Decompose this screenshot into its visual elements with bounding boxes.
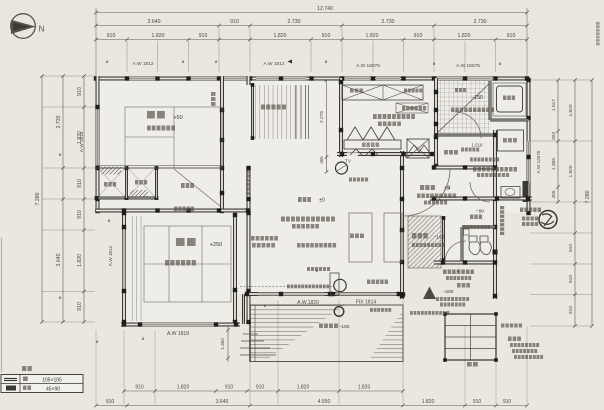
svg-text:ø: ø [108, 218, 111, 223]
dimension 1.350 vertical [227, 324, 229, 362]
svg-text:2.730: 2.730 [288, 19, 301, 25]
svg-text:ø: ø [325, 59, 328, 64]
post300 label [370, 308, 373, 312]
svg-text:1.820: 1.820 [366, 33, 379, 39]
toilet fixtures [469, 236, 480, 255]
top windows [127, 77, 158, 81]
kitchen counter [342, 85, 423, 100]
heater north wall [430, 197, 532, 201]
room1 tatami [125, 107, 222, 168]
svg-text:1.820: 1.820 [177, 385, 190, 391]
svg-text:−150: −150 [434, 235, 445, 241]
washer [498, 130, 524, 151]
room2 right wall [233, 213, 237, 324]
veranda strip border [295, 85, 297, 139]
washroom-porch wall [493, 130, 497, 299]
svg-text:A.W 1812: A.W 1812 [132, 61, 153, 67]
chimney dark bar [523, 181, 529, 202]
svg-text:ø: ø [106, 59, 109, 64]
svg-text:A.W 1812: A.W 1812 [108, 245, 113, 266]
svg-text:455: 455 [551, 190, 557, 198]
closet label 1 [104, 182, 107, 187]
room2 south wall [121, 323, 240, 327]
tilearea south wall [434, 134, 497, 137]
svg-text:105×105: 105×105 [42, 378, 62, 384]
door arc corridor [470, 182, 490, 202]
svg-text:910: 910 [135, 385, 144, 391]
fridge box [407, 139, 429, 158]
left page edge faint line [1, 238, 3, 372]
right wall posts [526, 78, 530, 82]
svg-text:2.275: 2.275 [319, 111, 325, 123]
svg-text:1.820: 1.820 [458, 33, 471, 39]
closet label 3 [181, 183, 185, 188]
svg-text:ø: ø [59, 295, 62, 300]
fusuma right note [246, 170, 250, 173]
porch triangle [423, 287, 436, 300]
terrace left edge [249, 305, 251, 362]
room2 name [176, 238, 185, 246]
svg-text:±0: ±0 [319, 198, 325, 204]
left wall posts [95, 105, 99, 109]
closet hatch band top [101, 167, 121, 175]
svg-text:ø: ø [499, 61, 502, 66]
door arc hall [403, 169, 450, 216]
left wall window AW1818 [96, 107, 100, 168]
toilet note [463, 225, 466, 229]
dimension line overall 12.740 [96, 12, 527, 14]
dimension col left segments [83, 76, 85, 322]
svg-text:910: 910 [77, 302, 83, 311]
doorway vlabel [500, 206, 504, 209]
bath label [503, 96, 506, 101]
stairs small note [455, 88, 458, 92]
svg-text:FIX 1814: FIX 1814 [356, 300, 377, 306]
svg-text:910: 910 [256, 385, 265, 391]
scan shading top [0, 0, 604, 60]
sofa [334, 279, 346, 291]
corridor east wall stub [247, 76, 251, 85]
svg-text:−150: −150 [339, 324, 350, 330]
veranda bay left wall [251, 83, 254, 140]
svg-text:ø: ø [215, 59, 218, 64]
svg-text:ø: ø [96, 339, 99, 344]
svg-text:ø: ø [59, 152, 62, 157]
svg-text:910: 910 [230, 19, 239, 25]
tv post note [349, 178, 352, 182]
svg-text:7.280: 7.280 [35, 192, 41, 205]
keshobashira note [297, 243, 301, 248]
svg-text:910: 910 [106, 399, 115, 405]
svg-text:910: 910 [225, 385, 234, 391]
room2 note [165, 260, 169, 266]
handrail note2 [410, 311, 413, 315]
svg-text:12.740: 12.740 [317, 6, 333, 12]
svg-text:910: 910 [77, 210, 83, 219]
hall name [420, 185, 424, 190]
svg-text:1.820: 1.820 [77, 254, 83, 267]
svg-text:2.730: 2.730 [56, 115, 62, 128]
dimension row bottom B [96, 405, 527, 407]
tile floor service area [437, 81, 490, 135]
porch label [457, 283, 461, 288]
sofa label [367, 280, 370, 285]
svg-text:910: 910 [568, 244, 574, 252]
svg-text:1.350: 1.350 [220, 338, 225, 350]
garden step lines [243, 333, 258, 335]
right post note [501, 324, 504, 328]
handrail note [287, 285, 290, 289]
top wall posts [94, 76, 98, 80]
table label [350, 234, 354, 239]
svg-text:A.W 12075: A.W 12075 [536, 150, 541, 173]
svg-text:3.640: 3.640 [56, 253, 62, 266]
svg-text:±0: ±0 [444, 186, 450, 192]
lower veranda hatch [129, 216, 143, 321]
svg-text:−200: −200 [443, 289, 454, 295]
room1 name [147, 111, 155, 119]
right wall window AW12075 [527, 141, 531, 183]
svg-text:ø: ø [182, 59, 185, 64]
svg-text:ø: ø [142, 336, 145, 341]
room2 tatami [144, 226, 231, 302]
entrance name [412, 233, 416, 239]
corridor east wall [247, 168, 251, 324]
living table [349, 213, 372, 262]
entrance hatch [408, 216, 441, 268]
bath west wall [489, 81, 492, 120]
svg-text:7.280: 7.280 [585, 190, 591, 203]
left wall upper [96, 76, 100, 213]
svg-text:−150: −150 [471, 95, 483, 101]
svg-text:910: 910 [568, 275, 574, 283]
svg-text:1.820: 1.820 [568, 104, 574, 116]
room2 south window AW1818 [140, 323, 216, 327]
dining chairs lower [350, 149, 378, 155]
living floor note [281, 217, 285, 222]
room1 fusuma vlabel [211, 92, 216, 96]
closet verticals [125, 167, 128, 198]
svg-text:910: 910 [322, 33, 331, 39]
svg-text:910: 910 [503, 399, 512, 405]
corridor fusuma label [174, 207, 177, 212]
svg-text:1.518: 1.518 [472, 143, 484, 148]
closet south wall [96, 197, 158, 200]
dimension line row3 [96, 39, 527, 41]
kitchen west wall [339, 78, 343, 157]
svg-text:TV: TV [345, 159, 352, 164]
svg-text:45×90: 45×90 [46, 387, 60, 393]
heater notes [520, 208, 523, 213]
living east wall posts [400, 152, 404, 156]
dimension col right outer 7.280 [591, 80, 593, 326]
svg-text:910: 910 [414, 33, 423, 39]
bath tub [497, 86, 523, 112]
tv circle [336, 162, 348, 174]
post circle terrace [334, 307, 344, 317]
entrance east wall [442, 216, 445, 262]
dining south wall [337, 152, 434, 156]
stair west wall [434, 78, 438, 168]
svg-text:3.640: 3.640 [148, 19, 161, 25]
sliding door note [251, 236, 255, 241]
right margin vertical note [596, 22, 600, 25]
room1 diag door line [174, 169, 220, 206]
closet cell diagonals [98, 168, 125, 197]
veranda table label [261, 105, 265, 110]
step up label [467, 362, 472, 367]
left extension lines [42, 75, 95, 77]
right extension lines [530, 79, 592, 81]
svg-text:2.730: 2.730 [474, 19, 487, 25]
dimension col right inner [557, 80, 559, 202]
svg-text:A.W 18075: A.W 18075 [356, 63, 380, 69]
room2 south posts [122, 322, 126, 326]
svg-text:A.W 1818: A.W 1818 [79, 131, 84, 152]
svg-text:−90: −90 [476, 209, 484, 215]
dimension col left groups [62, 76, 64, 322]
svg-text:+250: +250 [210, 242, 222, 248]
dimension col left 7.280 [41, 76, 43, 322]
vanity [501, 187, 520, 199]
svg-text:1.365: 1.365 [551, 158, 557, 170]
terrace label [319, 324, 323, 329]
veranda strip hatch [255, 85, 296, 139]
dining table [344, 140, 401, 149]
lower-left wall posts [122, 211, 126, 215]
svg-text:910: 910 [507, 33, 516, 39]
svg-text:1.820: 1.820 [152, 33, 165, 39]
svg-text:1.820: 1.820 [568, 165, 574, 177]
svg-text:303: 303 [551, 132, 557, 140]
dimension col right middle [574, 80, 576, 326]
svg-text:3.640: 3.640 [216, 399, 229, 405]
svg-text:4.550: 4.550 [318, 399, 331, 405]
svg-text:455: 455 [319, 156, 324, 164]
svg-text:A.W 1818: A.W 1818 [167, 331, 189, 337]
rightwing south wall [434, 261, 497, 265]
svg-text:910: 910 [107, 33, 116, 39]
dimension line row2 [96, 25, 527, 27]
legend table [1, 375, 83, 393]
building interior light floor [98, 78, 527, 213]
svg-text:1.517: 1.517 [551, 99, 557, 111]
room1 right wall [220, 76, 224, 213]
svg-text:910: 910 [473, 399, 482, 405]
svg-text:910: 910 [77, 179, 83, 188]
porch floor note [436, 297, 439, 301]
living south wall [245, 292, 404, 296]
handrail dashed [240, 286, 332, 288]
toilet west wall [461, 227, 464, 262]
step jog wall [242, 294, 245, 324]
dining chairs [347, 127, 395, 140]
dimension 2.275 interior [326, 80, 328, 172]
post note2 [307, 267, 310, 271]
hall south wall [434, 166, 497, 170]
svg-text:910: 910 [199, 33, 208, 39]
gutter note [508, 337, 512, 342]
cork floor note [473, 167, 477, 172]
corridor south wall [96, 209, 250, 213]
svg-text:A.W.1820: A.W.1820 [297, 300, 319, 306]
bath south wall [490, 119, 529, 122]
right outer wall [527, 80, 531, 215]
svg-text:1.820: 1.820 [358, 385, 371, 391]
svg-text:910: 910 [568, 306, 574, 314]
toilet north wall [462, 226, 495, 229]
porch entrance steps [445, 314, 496, 360]
living south windows [258, 292, 324, 296]
kitchen floor note [373, 114, 377, 119]
lower-left window [122, 230, 126, 291]
north arrow compass [11, 14, 36, 39]
lower-left wall [122, 213, 126, 324]
bottom extension lines [95, 330, 97, 404]
lattice door note [443, 270, 447, 275]
svg-text:+50: +50 [173, 115, 182, 121]
dimension row bottom A [124, 390, 403, 392]
svg-text:1.820: 1.820 [422, 399, 435, 405]
svg-text:A.W 18075: A.W 18075 [456, 63, 480, 69]
svg-text:N: N [39, 25, 45, 34]
room1 note [147, 126, 151, 131]
svg-text:A.W 1812: A.W 1812 [263, 61, 284, 67]
svg-text:1.820: 1.820 [274, 33, 287, 39]
svg-text:2.730: 2.730 [382, 19, 395, 25]
range hood dashed [396, 103, 428, 113]
living south posts [245, 292, 249, 296]
room1 south slide line [96, 167, 222, 169]
sink label [350, 89, 354, 93]
living east wall window [400, 230, 404, 262]
door arc washroom [455, 112, 481, 138]
svg-text:ø: ø [433, 61, 436, 66]
living east wall [400, 151, 404, 299]
closet label 2 [135, 180, 138, 185]
svg-text:910: 910 [77, 87, 83, 96]
door arc toilet [445, 241, 466, 262]
heater stamp circle [539, 211, 557, 229]
svg-text:1.820: 1.820 [297, 385, 310, 391]
living pm0 [298, 197, 302, 202]
closet hatch band bottom [130, 190, 148, 198]
hood label [402, 106, 405, 111]
top wall with windows [96, 77, 527, 81]
